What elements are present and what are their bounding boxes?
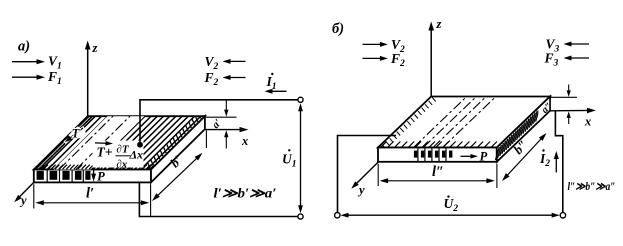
svg-text:l″: l″	[432, 164, 444, 180]
crystal plate (b): right end face (electrode)	[497, 97, 550, 162]
current arrow I1 (left)	[269, 90, 286, 92]
dimension l'	[38, 202, 147, 204]
a'' extension line	[550, 96, 577, 98]
vector V3 arrow	[568, 43, 589, 45]
svg-text:∂x: ∂x	[116, 159, 127, 171]
crystallographic dash-dot axis lines (a)	[59, 116, 113, 169]
voltage dimension U2	[343, 214, 557, 216]
b' extension line	[205, 131, 207, 149]
dimension a'' arrows	[568, 85, 570, 94]
l'' extension lines	[377, 164, 379, 186]
dimension b''	[504, 135, 545, 179]
dimension a' extension line (a)	[206, 116, 237, 118]
current arrow I2 (up)	[555, 156, 557, 173]
hatch fringe along front edge of top face (a)	[36, 165, 154, 169]
l' extension lines	[33, 184, 35, 208]
terminal (top, a)	[298, 97, 303, 102]
polarization arrow P (right)	[461, 155, 474, 157]
svg-text:∂T: ∂T	[116, 144, 129, 156]
vector V2 arrow (a)	[227, 60, 245, 62]
z axis (a)	[87, 46, 89, 116]
dimension a' arrows	[225, 100, 227, 112]
terminal (right, b)	[560, 213, 565, 218]
crystallographic dash-dot axis lines (b)	[414, 97, 467, 148]
terminal (left, b)	[335, 213, 340, 218]
voltage dimension U1	[300, 106, 302, 211]
vector F3 arrow	[568, 57, 589, 59]
svg-text:x: x	[584, 115, 591, 129]
dimension b'	[154, 155, 201, 200]
electrode hatch marks on front face (b)	[414, 148, 453, 161]
vector F2 arrow (a)	[227, 77, 245, 79]
svg-text:Δx: Δx	[129, 148, 144, 162]
terminal (bottom, a)	[298, 214, 303, 219]
svg-text:l′≫b′≫a′: l′≫b′≫a′	[214, 186, 277, 201]
svg-text:T+: T+	[97, 145, 113, 160]
wire from left end face to terminal 3	[338, 136, 397, 213]
metallization ticks along left edge of top face (a)	[35, 114, 95, 174]
clearing for gradient label (a)	[93, 141, 144, 168]
wire from top electrode to terminal 1	[140, 100, 298, 145]
crystal plate (b): top face	[378, 97, 550, 148]
dimension l''	[382, 180, 492, 182]
svg-text:z: z	[92, 41, 98, 55]
wire from right end face to terminal 4	[555, 111, 562, 213]
wire from bottom electrode to terminal 2	[139, 183, 298, 217]
y axis (a)	[18, 182, 34, 198]
svg-text:y: y	[19, 194, 27, 208]
hatch fringe along right edge of top face (a)	[147, 109, 204, 169]
inner boundary line of edge band (a)	[41, 116, 95, 169]
electrode hatching on end face (b)	[496, 109, 540, 161]
crystal plate (a): top face	[34, 116, 205, 169]
svg-text:P: P	[97, 170, 105, 184]
x axis (a)	[205, 129, 243, 131]
svg-text:l″≫b″≫a″: l″≫b″≫a″	[568, 181, 616, 193]
crystal plate (a): right side face	[151, 116, 205, 182]
svg-text:y: y	[357, 183, 365, 197]
crystal plate (a): front face	[34, 170, 151, 183]
svg-text:x: x	[241, 134, 248, 148]
polarization arrow P (down)	[93, 170, 95, 177]
hatch fringe along left edge of top face (b)	[379, 98, 436, 153]
svg-text:а): а)	[18, 39, 30, 55]
gradient arrow (points right)	[95, 142, 109, 145]
connection dot on top electrode (a)	[137, 142, 143, 148]
svg-text:l′: l′	[86, 186, 94, 202]
electrode hatch blocks on front face (a)	[37, 170, 91, 181]
svg-text:б): б)	[332, 21, 344, 37]
y axis (b)	[355, 162, 378, 185]
vector F2 arrow (b)	[363, 57, 384, 59]
x axis (b)	[550, 109, 591, 111]
axis band clearing (a)	[52, 113, 148, 172]
vector V1 arrow	[12, 61, 40, 63]
top face hatching (a)	[26, 111, 268, 172]
z axis (b)	[430, 27, 432, 97]
crystal plate (b): front face	[378, 148, 497, 162]
vector F1 arrow	[12, 76, 40, 78]
svg-text:P: P	[480, 150, 488, 164]
label a'' clearing	[538, 99, 549, 121]
svg-text:z: z	[436, 17, 442, 31]
vector V2 arrow (b)	[363, 43, 384, 45]
hatch fringe along front edge of top face (b)	[381, 142, 497, 148]
temperature arrow T (points down-left)	[65, 127, 85, 142]
